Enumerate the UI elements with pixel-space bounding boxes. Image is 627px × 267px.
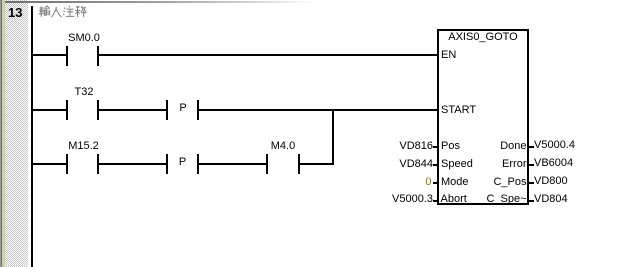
wire rung1 from rail to SM0.0 bbox=[33, 54, 66, 56]
pin C_Spe~ bbox=[486, 194, 526, 205]
pin START bbox=[441, 105, 476, 116]
tick Error output bbox=[529, 164, 534, 166]
operand V5000.3 bbox=[392, 194, 433, 205]
tick Pos input bbox=[433, 146, 438, 148]
contact M4.0 bbox=[0, 0, 1, 1]
operand V5000.4 bbox=[534, 140, 575, 151]
wire rung1 to EN bbox=[99, 54, 439, 56]
释 bbox=[75, 6, 80, 17]
入 bbox=[51, 7, 61, 17]
pin C_Pos bbox=[493, 177, 526, 188]
pin EN bbox=[441, 50, 456, 61]
operand VD804 bbox=[534, 194, 568, 205]
network number gutter dither bbox=[5, 0, 28, 267]
pin Speed bbox=[441, 159, 473, 170]
tick Abort input bbox=[433, 200, 438, 202]
contact P (rung2, positive edge) bbox=[0, 0, 1, 1]
wire rung3 P to M4.0 bbox=[199, 163, 266, 165]
operand VB6004 bbox=[534, 158, 573, 169]
operand 0 (Mode) bbox=[425, 177, 431, 188]
green margin strip bbox=[2, 0, 5, 267]
branch wire up to rung2 bbox=[332, 109, 334, 165]
contact M15.2 bbox=[0, 0, 1, 1]
network comment 输入注释 bbox=[38, 5, 88, 19]
pin Mode bbox=[441, 177, 469, 188]
tick Speed input bbox=[433, 164, 438, 166]
operand VD844 bbox=[399, 159, 433, 170]
wire rung2 T32 to P bbox=[99, 109, 166, 111]
contact T32 bbox=[0, 0, 1, 1]
contact SM0.0 bbox=[0, 0, 1, 1]
operand VD816 bbox=[399, 141, 433, 152]
pin Done bbox=[500, 141, 526, 152]
network separator line bbox=[5, 1, 315, 3]
tick C_Spe~ output bbox=[529, 200, 534, 202]
block title AXIS0_GOTO bbox=[448, 32, 518, 43]
pin Error bbox=[502, 159, 526, 170]
注 bbox=[63, 8, 65, 15]
pin Abort bbox=[441, 194, 467, 205]
wire rung2 P to START bbox=[199, 109, 439, 111]
network number 13 bbox=[8, 6, 22, 19]
function block U1 AXIS0_GOTO box bbox=[437, 29, 529, 205]
wire rung3 M4.0 to branch bbox=[300, 163, 334, 165]
left power rail bbox=[31, 6, 34, 267]
wire rung3 from rail to M15.2 bbox=[33, 163, 66, 165]
pin Pos bbox=[441, 141, 460, 152]
contact P (rung3, positive edge) bbox=[0, 0, 1, 1]
tick Mode input bbox=[433, 182, 438, 184]
输 bbox=[39, 6, 44, 16]
tick Done output bbox=[529, 146, 534, 148]
tick C_Pos output bbox=[529, 182, 534, 184]
wire rung3 M15.2 to P bbox=[99, 163, 166, 165]
wire rung2 from rail to T32 bbox=[33, 109, 66, 111]
window left border bbox=[0, 0, 1, 267]
operand VD800 bbox=[534, 176, 568, 187]
